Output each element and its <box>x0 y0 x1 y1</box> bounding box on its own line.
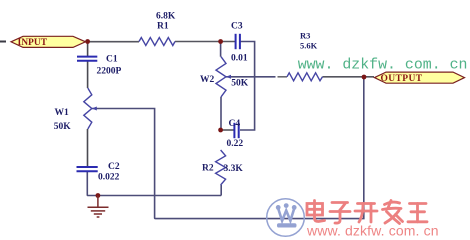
svg-text:R1: R1 <box>157 22 169 32</box>
svg-text:www. dzkfw. com. cn: www. dzkfw. com. cn <box>298 57 468 73</box>
svg-text:OUTPUT: OUTPUT <box>381 74 423 84</box>
svg-text:INPUT: INPUT <box>18 38 48 48</box>
svg-text:3.3K: 3.3K <box>224 164 244 174</box>
svg-text:5.6K: 5.6K <box>300 40 318 50</box>
svg-text:C3: C3 <box>231 22 243 32</box>
svg-text:50K: 50K <box>54 122 72 132</box>
svg-text:W1: W1 <box>55 108 70 118</box>
svg-text:www. dzkfw. com. cn: www. dzkfw. com. cn <box>306 223 439 239</box>
svg-text:C1: C1 <box>106 55 118 65</box>
svg-text:6.8K: 6.8K <box>156 11 176 21</box>
svg-text:50K: 50K <box>231 78 249 88</box>
svg-text:C4: C4 <box>229 119 241 129</box>
svg-text:W2: W2 <box>200 75 215 85</box>
svg-text:0.01: 0.01 <box>231 54 248 64</box>
svg-text:2200P: 2200P <box>97 67 122 77</box>
svg-text:R3: R3 <box>300 30 310 40</box>
svg-text:R2: R2 <box>202 164 214 174</box>
svg-text:0.22: 0.22 <box>227 139 244 149</box>
svg-text:0.022: 0.022 <box>98 172 120 182</box>
svg-text:C2: C2 <box>108 162 120 172</box>
